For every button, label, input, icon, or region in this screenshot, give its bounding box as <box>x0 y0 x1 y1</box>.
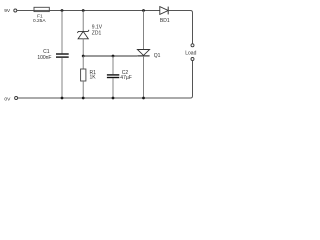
svg-text:0.25A: 0.25A <box>33 18 46 24</box>
diode BD1 <box>160 7 168 15</box>
svg-text:BD1: BD1 <box>160 18 170 24</box>
wire bottom rail R1 node to C1 node <box>62 97 83 99</box>
svg-text:100nF: 100nF <box>37 55 51 61</box>
node bottom rail C1 junction <box>61 97 64 100</box>
node top rail ZD1 junction <box>82 9 85 12</box>
wire gate line <box>83 55 137 57</box>
wire BD1 to load upper terminal <box>168 11 192 44</box>
wire terminal to fuse <box>17 10 34 12</box>
terminal load upper <box>191 44 194 47</box>
wire load lower terminal to bottom rail <box>144 61 193 98</box>
wire bottom rail C1 node to 0V terminal <box>18 97 62 99</box>
wire top rail Q1 node to BD1 anode <box>144 10 161 12</box>
resistor R1 <box>81 56 86 98</box>
thyristor Q1 <box>137 11 149 99</box>
capacitor C2 <box>107 56 119 98</box>
node top rail Q1 junction <box>142 9 145 12</box>
wire top rail fuse to C1 node <box>50 10 63 12</box>
zener diode ZD1 <box>77 11 89 57</box>
terminal 0V <box>15 97 18 100</box>
wire top rail ZD1 node to Q1 node <box>83 10 143 12</box>
node gate line C2 junction <box>112 55 115 58</box>
svg-text:9V: 9V <box>4 8 11 14</box>
svg-text:1K: 1K <box>90 74 97 80</box>
capacitor C1 <box>56 11 69 99</box>
svg-text:ZD1: ZD1 <box>92 30 102 36</box>
svg-text:0V: 0V <box>4 96 11 102</box>
node gate line R1 junction <box>82 55 85 58</box>
terminal load lower <box>191 58 194 61</box>
svg-text:47µF: 47µF <box>120 75 132 81</box>
wire bottom rail Q1 node to C2 node <box>113 97 144 99</box>
svg-text:Q1: Q1 <box>154 53 161 59</box>
terminal 9V input <box>14 9 17 12</box>
svg-text:Load: Load <box>185 51 196 57</box>
fuse F1 <box>34 7 49 11</box>
wire top rail C1 node to ZD1 node <box>62 10 83 12</box>
node bottom rail R1 junction <box>82 97 85 100</box>
node top rail C1 junction <box>61 9 64 12</box>
node bottom rail Q1 junction <box>142 97 145 100</box>
node bottom rail C2 junction <box>112 97 115 100</box>
wire bottom rail C2 node to R1 node <box>83 97 113 99</box>
